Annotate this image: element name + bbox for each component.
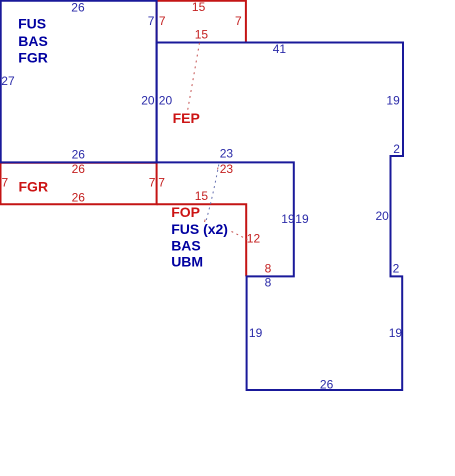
leader line 12 (red dashed)	[232, 232, 248, 240]
svg-text:15: 15	[195, 27, 209, 41]
svg-text:19: 19	[389, 326, 403, 340]
svg-text:26: 26	[72, 148, 86, 162]
svg-text:15: 15	[195, 189, 209, 203]
leader dash red top near 23	[217, 168, 218, 173]
svg-text:FEP: FEP	[173, 110, 200, 126]
svg-text:41: 41	[273, 42, 287, 56]
piece FOP outline (red partial: top + right edge)	[157, 204, 247, 276]
svg-text:23: 23	[220, 146, 234, 160]
svg-text:19: 19	[249, 326, 263, 340]
svg-text:7: 7	[158, 176, 165, 190]
svg-text:7: 7	[159, 14, 166, 28]
svg-text:19: 19	[295, 212, 309, 226]
svg-text:26: 26	[72, 162, 86, 176]
svg-text:19: 19	[281, 212, 295, 226]
svg-text:FUS: FUS	[18, 16, 46, 32]
svg-text:8: 8	[265, 262, 272, 276]
leader line FEP (red dashed)	[188, 43, 200, 111]
svg-text:FGR: FGR	[18, 49, 48, 65]
svg-text:7: 7	[149, 176, 156, 190]
svg-text:26: 26	[320, 377, 334, 391]
svg-text:BAS: BAS	[18, 33, 48, 49]
piece FEP outline (red rect top)	[157, 1, 246, 43]
svg-text:7: 7	[2, 176, 9, 190]
svg-text:FOP: FOP	[171, 204, 200, 220]
svg-text:12: 12	[247, 231, 261, 245]
leader line FUS x2 (blue dashed)	[206, 165, 219, 223]
svg-text:15: 15	[192, 0, 206, 14]
svg-text:2: 2	[393, 261, 400, 275]
svg-text:27: 27	[1, 74, 15, 88]
svg-text:FUS (x2): FUS (x2)	[171, 221, 228, 237]
leader dash red bottom near FUS x2	[203, 220, 206, 224]
svg-text:19: 19	[386, 94, 400, 108]
svg-text:2: 2	[393, 142, 400, 156]
svg-text:23: 23	[220, 162, 234, 176]
svg-text:26: 26	[72, 191, 86, 205]
piece FUS/BAS/FGR outline (blue rect top-left)	[1, 1, 157, 163]
svg-text:FGR: FGR	[19, 178, 49, 194]
svg-text:20: 20	[159, 94, 173, 108]
svg-text:20: 20	[376, 209, 390, 223]
svg-text:BAS: BAS	[171, 237, 201, 253]
piece FGR outline (red rect left)	[1, 163, 157, 204]
svg-text:7: 7	[235, 14, 242, 28]
svg-text:8: 8	[265, 276, 272, 290]
svg-text:7: 7	[148, 14, 155, 28]
svg-text:UBM: UBM	[171, 254, 203, 270]
svg-text:26: 26	[71, 0, 85, 14]
piece FUS(x2)/BAS/UBM outline (big blue polygon)	[157, 43, 403, 391]
svg-text:20: 20	[141, 94, 155, 108]
